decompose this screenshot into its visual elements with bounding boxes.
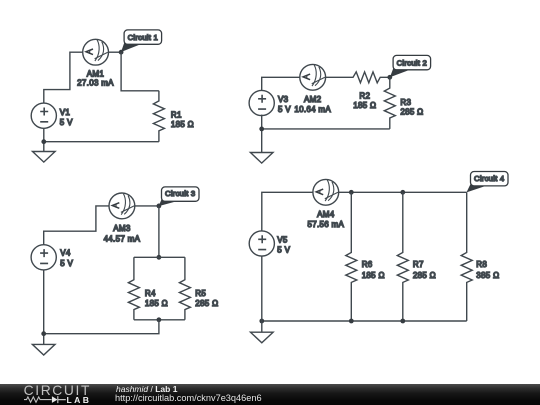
wire R3 bottom to V3 bottom (262, 128, 390, 130)
wire V3 top to AM2 left (262, 77, 300, 90)
node junction dot circuit2 (387, 75, 392, 80)
svg-text:5 V: 5 V (278, 105, 291, 114)
svg-text:AM4: AM4 (317, 210, 335, 219)
wire R1 bottom to V1 bottom (44, 141, 159, 143)
resistor R4 (128, 257, 139, 320)
wire bottom rail (134, 319, 185, 321)
node junction dot circuit1 (119, 50, 124, 55)
ground circuit3 (32, 344, 55, 355)
wire V1 top to AM1 left (44, 52, 83, 103)
CircuitLab logo (0, 384, 110, 405)
junction dot bottom rail (157, 317, 162, 322)
junction dot top rail (157, 255, 162, 260)
node label box Circuit 4 (471, 172, 509, 186)
voltage source V3 (249, 90, 274, 115)
junction dot V1 bottom (41, 139, 46, 144)
flag pointer circuit2 (390, 68, 410, 77)
ammeter AM2 (300, 64, 326, 90)
svg-text:V3: V3 (278, 95, 289, 104)
junction dot bottom left corner (259, 319, 264, 324)
svg-text:LAB: LAB (67, 395, 92, 405)
svg-text:V5: V5 (277, 236, 288, 245)
resistor R6 (346, 192, 357, 321)
wire AM3 left to V4 top (44, 206, 109, 245)
wire AM3 right to node (135, 205, 159, 207)
wire bottom rail circuit4 (262, 320, 467, 322)
svg-text:Circuit 4: Circuit 4 (474, 174, 505, 183)
svg-text:R3: R3 (400, 98, 411, 107)
svg-text:Circuit 3: Circuit 3 (165, 189, 195, 198)
wire AM1 right to node (109, 51, 122, 53)
wire node down and right to R1 top (121, 52, 159, 91)
ground circuit1 (33, 152, 56, 163)
svg-text:57.56 mA: 57.56 mA (307, 220, 344, 229)
svg-text:5 V: 5 V (277, 246, 290, 255)
svg-text:385 Ω: 385 Ω (476, 271, 499, 280)
ammeter AM1 (83, 39, 109, 65)
svg-text:V4: V4 (60, 248, 71, 257)
wire V1 bottom to ground (43, 129, 45, 152)
svg-text:10.64 mA: 10.64 mA (294, 105, 331, 114)
ground circuit4 (250, 332, 273, 343)
junction dot V3 bottom (259, 126, 264, 131)
svg-text:5 V: 5 V (60, 118, 73, 127)
wire AM4 right along top rail (339, 191, 467, 193)
svg-text:R2: R2 (359, 92, 370, 101)
svg-text:285 Ω: 285 Ω (195, 299, 218, 308)
svg-text:27.03 mA: 27.03 mA (77, 79, 114, 88)
svg-text:185 Ω: 185 Ω (353, 101, 376, 110)
svg-text:R7: R7 (413, 260, 424, 269)
wire V5 bottom to ground (261, 256, 263, 332)
wire top rail (134, 256, 185, 258)
node label box Circuit 3 (162, 187, 200, 201)
wire V3 bottom to ground (261, 115, 263, 153)
wire bottom rail to bottom wire (44, 320, 159, 334)
resistor R1 (153, 91, 164, 142)
svg-text:Circuit 2: Circuit 2 (397, 58, 427, 67)
svg-text:R4: R4 (145, 289, 156, 298)
node label box Circuit 2 (393, 55, 431, 69)
node label box Circuit 1 (124, 30, 162, 44)
voltage source V5 (249, 231, 274, 256)
svg-text:185 Ω: 185 Ω (362, 271, 385, 280)
svg-text:AM3: AM3 (113, 224, 131, 233)
wire AM2 right + resistor R2 (326, 72, 390, 83)
voltage source V4 (31, 245, 56, 270)
svg-text:AM2: AM2 (304, 95, 322, 104)
ground circuit2 (250, 153, 273, 164)
resistor R7 (397, 192, 408, 321)
resistor R8 (461, 192, 472, 321)
svg-text:285 Ω: 285 Ω (413, 271, 436, 280)
flag pointer circuit1 (121, 43, 142, 52)
url (115, 393, 262, 403)
wire V5 top to AM4 left (262, 192, 313, 230)
flag pointer circuit3 (159, 199, 179, 206)
junction dot R6 top (349, 190, 354, 195)
svg-text:AM1: AM1 (87, 69, 105, 78)
svg-text:185 Ω: 185 Ω (171, 120, 194, 129)
resistor R3 (384, 77, 395, 129)
svg-text:185 Ω: 185 Ω (145, 299, 168, 308)
junction dot R7 top (400, 190, 405, 195)
svg-text:Circuit 1: Circuit 1 (128, 33, 158, 42)
ammeter AM4 (313, 179, 339, 205)
svg-text:R8: R8 (476, 260, 487, 269)
svg-text:285 Ω: 285 Ω (400, 107, 423, 116)
svg-text:5 V: 5 V (60, 259, 73, 268)
wire V4 bottom to ground (43, 270, 45, 344)
footer bar (0, 384, 540, 405)
svg-text:V1: V1 (60, 108, 71, 117)
ammeter AM3 (109, 193, 135, 219)
voltage source V1 (31, 103, 56, 128)
junction dot V4 bottom (41, 331, 46, 336)
svg-text:R5: R5 (195, 289, 206, 298)
junction dot bottom R7 (400, 319, 405, 324)
svg-text:R6: R6 (362, 260, 373, 269)
resistor R5 (179, 257, 190, 320)
flag pointer circuit4 (467, 184, 488, 193)
node junction dot circuit3 (157, 204, 162, 209)
breadcrumb (116, 384, 177, 394)
svg-text:R1: R1 (171, 110, 182, 119)
svg-text:44.57 mA: 44.57 mA (104, 234, 141, 243)
wire node down to parallel rail (158, 206, 160, 257)
junction dot bottom R6 (349, 319, 354, 324)
